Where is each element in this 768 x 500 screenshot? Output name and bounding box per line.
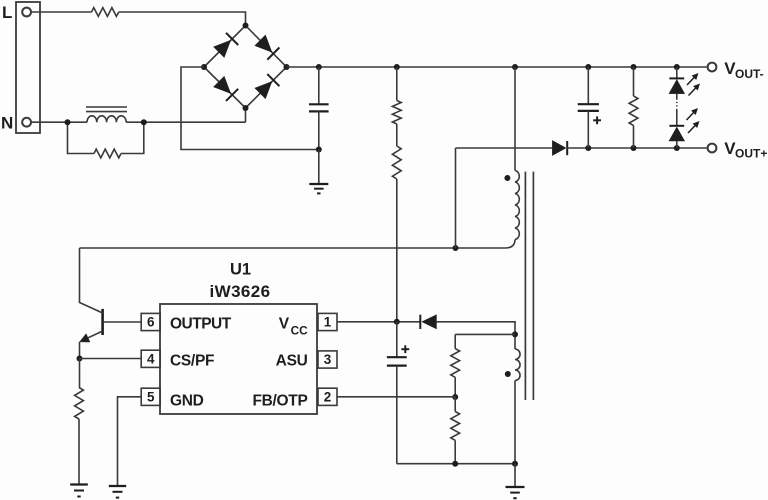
svg-text:OUT+: OUT+ bbox=[735, 147, 767, 161]
svg-text:3: 3 bbox=[324, 352, 332, 367]
svg-text:N: N bbox=[1, 114, 13, 133]
svg-text:6: 6 bbox=[147, 315, 155, 330]
svg-text:OUT-: OUT- bbox=[735, 67, 764, 81]
svg-text:V: V bbox=[279, 315, 290, 332]
svg-text:5: 5 bbox=[147, 390, 155, 405]
svg-text:U1: U1 bbox=[230, 260, 251, 278]
svg-text:CC: CC bbox=[291, 323, 309, 337]
svg-text:ASU: ASU bbox=[276, 353, 308, 370]
svg-text:4: 4 bbox=[147, 352, 155, 367]
svg-text:L: L bbox=[2, 3, 12, 22]
svg-text:CS/PF: CS/PF bbox=[170, 353, 214, 370]
svg-text:iW3626: iW3626 bbox=[210, 282, 271, 301]
svg-text:GND: GND bbox=[170, 392, 204, 409]
svg-text:2: 2 bbox=[324, 390, 332, 405]
svg-text:1: 1 bbox=[324, 315, 332, 330]
svg-text:OUTPUT: OUTPUT bbox=[170, 315, 232, 332]
svg-text:FB/OTP: FB/OTP bbox=[252, 392, 307, 409]
